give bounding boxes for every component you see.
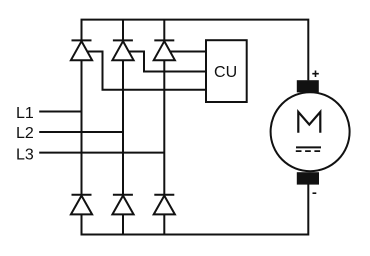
svg-text:CU: CU: [214, 64, 237, 81]
svg-text:L3: L3: [16, 146, 34, 163]
svg-text:L1: L1: [16, 105, 34, 122]
svg-text:L2: L2: [16, 125, 34, 142]
